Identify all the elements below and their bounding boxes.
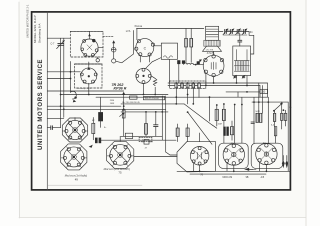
electrolytic dark bar [98, 112, 103, 121]
wire bus y112 [121, 111, 168, 113]
wire top bus [137, 28, 204, 30]
wire y92 right [226, 91, 260, 93]
wire cap row lower rail [223, 34, 247, 36]
svg-text:49: 49 [75, 178, 79, 182]
resistor R16 above S1 [186, 128, 189, 137]
resistor R5 [92, 123, 95, 133]
volume control cluster [120, 95, 126, 137]
tube V5 pins [204, 55, 224, 77]
tube V10 pins [224, 144, 243, 165]
capacitor C3 dark [182, 60, 185, 63]
svg-text:UNITED MOTORS SERVICE: UNITED MOTORS SERVICE [38, 59, 44, 150]
wire vertical x162 [161, 96, 163, 140]
tube V4 pins [136, 68, 151, 83]
shield box S2 [219, 143, 249, 168]
label box 250 [260, 89, 268, 93]
wire J1 stub [97, 57, 99, 59]
wire R12 R13 tops [281, 102, 283, 113]
resistor R8 [230, 127, 233, 135]
svg-text:Penna: Penna [135, 24, 143, 28]
wire V9 side drop [193, 163, 195, 172]
capacitor C4 dark [197, 61, 200, 64]
svg-text:250: 250 [261, 90, 266, 94]
wire mid band y97 [96, 96, 268, 98]
tube V7 electrodes [61, 147, 87, 168]
wire bar leads [100, 97, 102, 112]
wire V3 plate to B3 [154, 45, 162, 47]
node dots on buses [236, 82, 238, 84]
wire R16 leads [187, 124, 189, 128]
wire vertical left bus [63, 38, 65, 117]
wire C2 drop [178, 64, 180, 83]
svg-text:1MF: 1MF [110, 103, 115, 105]
wire comb tap 5 [198, 88, 200, 98]
svg-text:50M: 50M [255, 111, 259, 113]
phone jack J1 [96, 59, 99, 62]
node dots left [60, 94, 65, 111]
coil L2 bumps [184, 63, 194, 65]
squiggle in B3 [164, 56, 173, 59]
tube V9 pins [191, 147, 208, 165]
node dot y92 [246, 91, 248, 93]
svg-text:KP36 R: KP36 R [114, 86, 127, 90]
wire V11 cathode drop [265, 165, 267, 172]
tube V11 pins [257, 144, 276, 165]
tube V10 envelope [223, 144, 244, 165]
svg-text:350-25 150-60: 350-25 150-60 [145, 98, 160, 100]
wire R15 leads [177, 124, 179, 128]
tube V7 shield octagon [61, 144, 87, 170]
wire R5 bottom [92, 134, 94, 140]
wire can taps down [236, 76, 238, 83]
tube V7 envelope [64, 147, 84, 167]
wire V1 plate to right [98, 47, 103, 49]
speaker voice coil stack [206, 26, 219, 40]
node dots right [216, 101, 269, 106]
resistor strip section 1 [175, 83, 178, 88]
wire antenna input [47, 37, 70, 39]
wire left bus y106 [47, 105, 121, 107]
wire R1 top [185, 29, 187, 39]
node dot diag [187, 111, 189, 113]
svg-text:A B: A B [261, 176, 265, 179]
arrow into V5 [197, 59, 202, 63]
wire C9 to can [239, 42, 241, 46]
wire cap lead down [60, 45, 62, 127]
capacitor C12 [154, 111, 158, 136]
tube V3 pins [135, 40, 155, 57]
wire vertical x234 [234, 105, 236, 144]
capacitor pair dark [95, 138, 101, 144]
node dot B [70, 78, 72, 80]
node dots strip [175, 82, 200, 84]
tube V2 envelope [81, 68, 97, 84]
wire V4 top diagonal [146, 58, 162, 69]
wire top bus drop [136, 29, 138, 40]
resistor strip section 4 [192, 83, 195, 88]
svg-text:B+ 250 180 90 45: B+ 250 180 90 45 [122, 102, 140, 104]
wire vertical x254 [253, 98, 255, 144]
wire V8 right to shields [134, 156, 177, 158]
capacitor row C8 [242, 29, 247, 35]
wire stub A [47, 71, 80, 73]
antenna arrow [112, 40, 115, 43]
tube V1 envelope [81, 39, 98, 56]
svg-text:Mod xxxx (2nd Det-AVC): Mod xxxx (2nd Det-AVC) [104, 168, 131, 171]
arrow at V7 [89, 145, 93, 148]
wire bus y140 [101, 139, 176, 141]
node dots mid buses [88, 94, 194, 113]
wire V5 top to speaker [213, 51, 215, 54]
node dot x209 [209, 96, 211, 98]
wire V3 pin drops [139, 56, 141, 62]
wire V11 side drop [259, 162, 261, 171]
faint interior bottom line [48, 184, 142, 186]
wire vertical x166 [165, 96, 167, 152]
IF transformer can B4 [233, 46, 251, 76]
tube V6 electrodes [63, 120, 88, 140]
wire bottom bus second [190, 173, 266, 175]
wire lamp feed [70, 88, 72, 93]
node dots bottom bus [199, 170, 268, 172]
tube V6 shield octagon [62, 118, 87, 142]
wire dart leads [282, 156, 284, 161]
wire left bus y109 [47, 108, 165, 110]
tube V6 envelope [65, 120, 84, 139]
svg-text:75: 75 [118, 171, 122, 175]
trimmer C11 below can [242, 75, 246, 79]
resistor R2 vertical [190, 38, 193, 47]
wire R8 leads [231, 121, 233, 127]
wire vertical x268 [267, 98, 269, 144]
dashed box label 47 [139, 137, 152, 141]
wire cap row out right [245, 32, 254, 55]
resistor R7 [222, 109, 225, 120]
wire bus y104 [121, 103, 184, 105]
wire osc grid drop [116, 31, 134, 63]
antenna jack circle [112, 59, 116, 63]
wire cap row to can cap [239, 34, 241, 40]
trimmer C10 below can [233, 75, 237, 79]
wire mid bus y94 [61, 94, 168, 96]
page edge shadow bottom [19, 217, 306, 219]
page edge shadow right [305, 0, 307, 226]
wire right drops from bus1 [258, 83, 260, 113]
resistor R12 [281, 113, 284, 120]
wire vertical x241 [241, 98, 243, 144]
choke dark pair [223, 127, 228, 136]
speaker plug darts [282, 161, 288, 169]
wire R2 top [190, 29, 192, 39]
page edge shadow left [18, 2, 20, 218]
tube V8 shield octagon [107, 141, 134, 168]
resistor R10 [259, 113, 262, 122]
wire R2 bottom [190, 47, 192, 62]
svg-text:C-7: C-7 [51, 43, 56, 46]
wire L2 out [194, 64, 204, 66]
wire vertical x288 right [287, 102, 289, 171]
boxed label tone [130, 96, 137, 99]
border frame [32, 12, 291, 190]
resistor R13 [284, 113, 287, 120]
wire bus y136 [121, 135, 156, 137]
wire R4 bottom [145, 134, 147, 136]
svg-text:MODEL 4294, R-9-P: MODEL 4294, R-9-P [33, 15, 37, 43]
wire V10 side drop [226, 163, 228, 172]
wire y91 left [47, 90, 123, 92]
capacitor row C7 [236, 29, 241, 35]
tube V4 IF envelope [136, 68, 151, 83]
boxed label control [143, 96, 164, 99]
capacitor row C6 [229, 29, 234, 35]
tube V2 pins [80, 67, 97, 84]
resistor R3 zigzag [151, 76, 157, 86]
wire V8 grid to bus [119, 136, 121, 141]
svg-text:10M: 10M [218, 124, 222, 126]
capacitor C15 [251, 122, 254, 124]
arrow on bus [244, 168, 256, 171]
node arrow on y94 [122, 92, 125, 95]
small box label left [125, 133, 132, 138]
wire R4 top [145, 112, 147, 124]
wire V1 grid cap [89, 31, 91, 39]
wire diag comb to shield [188, 112, 212, 144]
resistor R9 [256, 113, 259, 122]
tube V8 electrodes [107, 144, 133, 165]
wire speaker to cap row [219, 31, 223, 33]
capacitor C9 [238, 40, 242, 42]
tube V9 envelope [190, 147, 209, 166]
svg-text:UNITED MOTOR PAGE 2-1: UNITED MOTOR PAGE 2-1 [26, 4, 30, 38]
wire R12 R13 bottoms [281, 120, 283, 129]
wire V5 side drops [205, 74, 207, 86]
resistor strip section 2 [181, 83, 184, 88]
tube V3 oscillator envelope [136, 39, 154, 57]
node dot A [70, 71, 72, 73]
wire R11 chain [274, 111, 276, 114]
tube V1 pins [81, 39, 98, 56]
wire bus2 [168, 86, 260, 98]
wire bus1 [168, 83, 268, 97]
dashed shield box B1 [70, 31, 103, 57]
capacitor C13 at frame [47, 126, 60, 130]
shield box S3 [251, 143, 283, 168]
wire y92 drop [237, 92, 239, 97]
wire R6 leads [216, 105, 218, 109]
wire R1 bottom [185, 47, 187, 62]
wire R7 leads [223, 104, 225, 109]
tube V5 detector envelope [203, 55, 224, 76]
wire cap row links [226, 31, 230, 33]
svg-text:25M: 25M [110, 100, 114, 102]
wire right bus y102 [252, 101, 288, 103]
wire R5 top [92, 118, 94, 124]
wire bottom bus main [177, 170, 290, 172]
wire stub B [47, 78, 70, 80]
resistor R11 [273, 113, 275, 121]
tube V8 envelope [110, 145, 131, 166]
wire stub y118 [47, 117, 64, 119]
shield box S1 [177, 142, 216, 172]
capacitor C14 near V8 [142, 140, 153, 150]
switch lever [273, 103, 284, 112]
wire dashed gang link [103, 35, 114, 37]
inner margin line [46, 12, 48, 190]
wire V4 cathode to bus [143, 84, 145, 95]
wire cathode bus [70, 62, 72, 89]
resistor strip section 5 [198, 83, 201, 88]
wire R3 down [154, 87, 156, 94]
wire V2 cathode to bus [88, 83, 90, 94]
resistor R1 vertical [185, 38, 188, 47]
speaker field coil [204, 40, 220, 46]
dial lamp curl [71, 91, 77, 102]
svg-text:9B: 9B [246, 177, 249, 179]
wire V2 grid [88, 62, 90, 67]
svg-text:MOD-CM: MOD-CM [223, 177, 233, 179]
wire verticals into shields [199, 133, 201, 142]
wire vertical x209 [209, 98, 211, 122]
wire strip tap drops [175, 88, 177, 104]
wire B3 bottom drop [169, 59, 171, 83]
resistor strip section 3 [186, 83, 189, 88]
trimmer capacitor C1 [57, 38, 65, 48]
box B3 oscillator coil [161, 43, 177, 59]
IF transformer windings [234, 50, 249, 72]
capacitor C2 dark [177, 60, 180, 64]
wire V10 cathode drop [233, 165, 235, 171]
svg-text:Stromberg 8-A: Stromberg 8-A [37, 23, 41, 43]
svg-text:L7A: L7A [126, 29, 131, 33]
resistor R6 [215, 109, 218, 120]
wire V6 top [74, 118, 76, 121]
resistor R4 [144, 124, 147, 135]
tube V11 envelope [256, 143, 277, 164]
wire elbow to S1 [166, 152, 177, 155]
antenna padder circle-cross [111, 43, 116, 59]
speaker cone [203, 46, 222, 51]
wire diagonal feed [184, 104, 217, 128]
wire V9 cathode drop [199, 165, 201, 171]
dashed shield box B2 [75, 64, 102, 88]
resistor R15 above S1 [176, 128, 179, 137]
node dot L2a [195, 64, 197, 66]
svg-text:xTx 7/9: xTx 7/9 [206, 49, 214, 51]
resistor strip dashed box [170, 81, 206, 89]
resistor R14 [274, 127, 276, 136]
wire V5 cathode drop [213, 77, 215, 83]
wire bus136 to V8 [156, 135, 163, 137]
svg-text:Dial lamp 6-8V: Dial lamp 6-8V [77, 88, 92, 90]
capacitor row C5 [223, 29, 228, 35]
